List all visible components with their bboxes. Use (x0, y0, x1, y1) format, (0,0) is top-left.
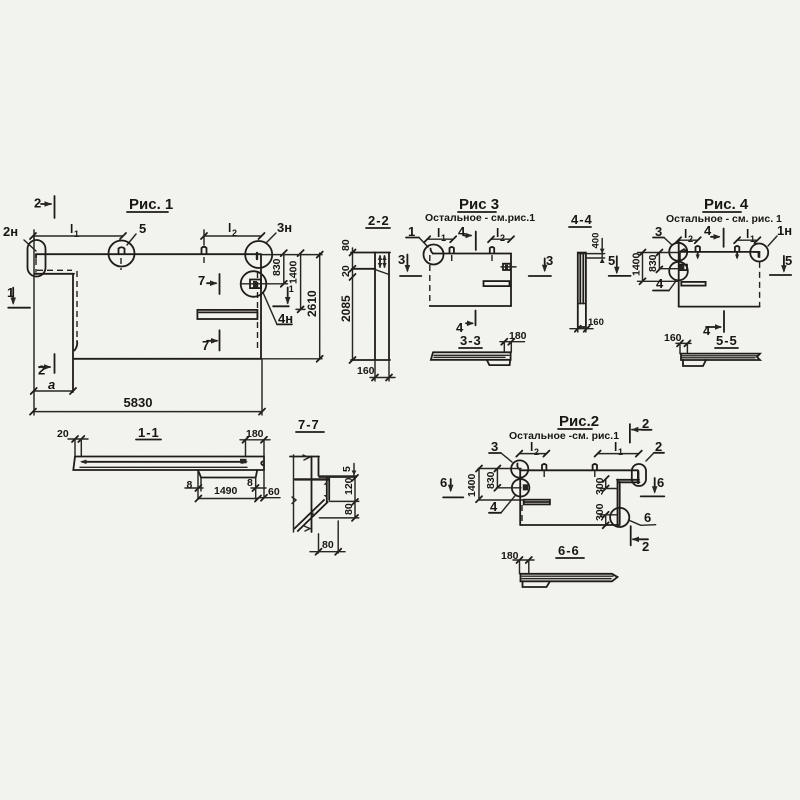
panel fig4 bottom (679, 306, 760, 308)
slot plate (fig3) (484, 281, 510, 286)
anchor detail (fig3) (503, 264, 511, 270)
panel fig3 bottom (430, 305, 511, 307)
break mark top 7-7 (303, 455, 309, 460)
anchor mark 1-1 (240, 459, 247, 464)
hook left end (fig2) (517, 464, 520, 471)
top line 7-7 (290, 456, 319, 458)
circle 5 (109, 241, 135, 267)
hook mid (202, 247, 207, 254)
panel top edge (36, 253, 261, 255)
weld dots 7-7 (324, 481, 327, 485)
left step line 7-7 (295, 478, 329, 480)
panel left extension (33, 235, 35, 415)
panel right dashed (257, 272, 259, 349)
hook right 1-1 (261, 462, 262, 466)
circle 4 (fig2) (512, 479, 530, 497)
circle 3 (fig2) (511, 460, 528, 477)
hook left end fig4 (678, 252, 680, 261)
rib 1-1 (198, 470, 257, 478)
step dashed companion (37, 269, 72, 271)
slot plate plan (197, 310, 257, 319)
pin b (fig4) (735, 246, 739, 252)
panel corner nub left (35, 254, 37, 258)
anchor detail (fig4) (680, 265, 687, 271)
hook in stadium (fig2) (637, 472, 639, 484)
circle 1 (fig3) (424, 245, 444, 265)
panel fig4 left edge (678, 240, 680, 307)
section bar 1-1 (73, 457, 264, 471)
marker 2 bottom (fig2) (630, 526, 632, 545)
panel fig3 left dashed (429, 255, 431, 306)
circle 3н (245, 241, 272, 268)
marker 2 top (fig2) (629, 424, 631, 443)
pin a (fig4) (696, 246, 700, 252)
rebar line 1-1 (82, 461, 246, 463)
hook 5 (119, 247, 125, 254)
hook b (fig3) (490, 247, 494, 253)
L-bar (fig2) (617, 479, 639, 481)
rebar arrows 2-2 (379, 256, 381, 267)
dims left fig4 (638, 252, 680, 254)
circle 4 (fig4) (669, 262, 688, 281)
main line fig2 (520, 469, 638, 471)
left dims (fig2) (478, 468, 521, 470)
paper grain overlay (0, 0, 1, 1)
panel fig3 right (510, 254, 512, 307)
bar 4-4 (578, 253, 586, 327)
panel right edge (260, 254, 262, 359)
section bar 3-3 (431, 352, 511, 360)
anchor detail (fig2) (523, 484, 528, 490)
circle 3 (fig4) (669, 243, 687, 261)
rib 5-5 (683, 360, 706, 366)
panel fig3 top (431, 249, 434, 254)
hook right end fig4 (754, 252, 759, 257)
circle 4н (241, 271, 267, 297)
step vertical (72, 274, 74, 392)
left edge (fig2) (519, 470, 521, 525)
hook a (fig2) (542, 464, 546, 470)
bottom line (fig2) (520, 524, 620, 526)
panel fig4 top (680, 251, 760, 253)
slot plate (fig4) (681, 282, 705, 286)
hook 3н (256, 253, 258, 259)
dashed hook bottom (75, 341, 78, 351)
circle 1н (fig4) (750, 244, 768, 262)
hook b (fig2) (593, 464, 597, 470)
step horizontal (35, 273, 75, 275)
plate (fig2) (524, 500, 550, 505)
dim 830 (283, 253, 285, 284)
loop 2н stadium (28, 240, 46, 277)
rib 3-3 (487, 360, 510, 365)
wall verticals 7-7 (311, 457, 313, 533)
panel fig4 right dashed (759, 252, 761, 307)
anchor detail 4н (250, 280, 261, 289)
left dim extension 7-7 (293, 455, 295, 532)
rib 6-6 (523, 581, 551, 587)
section bar 6-6 (521, 574, 618, 582)
shelf 7-7 (319, 475, 358, 478)
panel bottom edge (74, 358, 261, 360)
dim 2610 (261, 254, 322, 256)
circle 6 (fig2) (610, 508, 629, 527)
stadium 2 (fig2) (632, 464, 646, 486)
panel outline 2-2 (351, 252, 390, 254)
profile below shelf 7-7 (326, 478, 328, 502)
slope 7-7 (298, 502, 328, 531)
hook a (fig3) (450, 247, 454, 253)
section bar 5-5 (681, 354, 760, 360)
dim 1400 (300, 253, 302, 309)
